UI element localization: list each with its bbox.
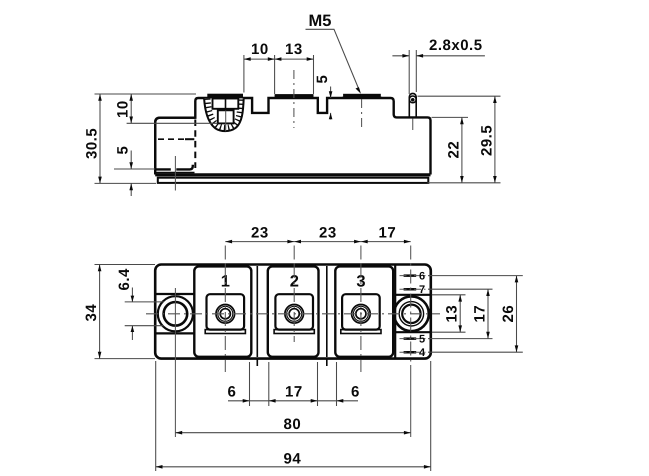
tab hidden edge (dashed)	[194, 120, 196, 169]
ext line tab bottom	[114, 168, 155, 170]
aux pin 6	[404, 274, 417, 277]
section block terminal 2	[268, 266, 319, 356]
centerline terminal 1	[224, 246, 226, 373]
dimension 26 (right)	[516, 276, 518, 353]
svg-text:13: 13	[444, 305, 461, 323]
dimension 22	[461, 117, 463, 182]
module body outline (side view)	[155, 98, 430, 175]
ext lines 94	[156, 361, 431, 471]
mounting hole centerline (left, side view)	[174, 156, 176, 191]
svg-text:10: 10	[115, 100, 132, 118]
dimension 5 (left)	[130, 151, 132, 197]
dimension 13 (right)	[459, 295, 461, 332]
svg-text:2.8x0.5: 2.8x0.5	[429, 37, 483, 54]
dimension 10 (left)	[130, 94, 132, 123]
ext line module top	[95, 93, 197, 95]
terminal 3 circles	[352, 305, 371, 324]
svg-text:4: 4	[419, 347, 426, 359]
aux pin 5	[404, 337, 417, 340]
centerline left hole	[174, 288, 176, 437]
svg-text:5: 5	[419, 333, 426, 345]
nut center line	[225, 111, 227, 132]
dimension 17 (right)	[487, 289, 489, 338]
dimension 2.8x0.5	[409, 50, 416, 94]
svg-text:17: 17	[285, 383, 303, 400]
dimension 94	[156, 466, 431, 468]
svg-text:17: 17	[379, 225, 397, 242]
svg-text:80: 80	[284, 416, 302, 433]
pad 3 centerline	[361, 99, 363, 130]
baseplate	[158, 178, 429, 183]
tab (quick-connect terminal)	[155, 118, 195, 170]
ext lines right pins	[428, 275, 523, 277]
centerline terminal 2	[293, 246, 295, 343]
terminal 2 circles	[285, 305, 304, 324]
svg-text:17: 17	[472, 305, 489, 323]
dimension 13 (top)	[275, 57, 282, 61]
terminal 1 square pad	[207, 294, 245, 329]
dimension 80	[175, 432, 410, 434]
centerline pins column / right hole	[410, 246, 412, 366]
dimension row 6/17/6	[228, 400, 358, 402]
svg-text:10: 10	[251, 41, 269, 58]
nut (white rect with split)	[213, 99, 239, 109]
horizontal centerline	[146, 313, 440, 315]
groove line t2/t3	[326, 266, 328, 366]
dimension 29.5	[494, 96, 496, 183]
aux pin 7	[404, 288, 417, 291]
clamp washer bar (dark)	[207, 94, 243, 98]
ext line pin top right	[418, 95, 501, 97]
terminal 2 square pad	[275, 294, 313, 329]
svg-text:26: 26	[500, 305, 517, 323]
ext line tab top	[127, 122, 218, 124]
left mounting hole	[158, 296, 193, 331]
screw shank (white rect)	[218, 110, 234, 123]
ext line baseplate bottom left	[95, 182, 157, 184]
terminal pad 1 (dark bar)	[275, 94, 314, 98]
pins section divider	[394, 266, 396, 358]
svg-text:M5: M5	[309, 12, 332, 30]
svg-text:23: 23	[251, 225, 269, 242]
groove line t1/t2	[256, 266, 258, 366]
svg-text:6: 6	[351, 383, 360, 400]
svg-text:29.5: 29.5	[478, 125, 495, 156]
section block terminal 1	[194, 266, 251, 356]
ext lines 34	[95, 265, 156, 359]
right hole block lines	[395, 295, 430, 332]
dimension 10 (top)	[244, 58, 314, 60]
svg-text:6.4: 6.4	[116, 268, 133, 291]
svg-text:6: 6	[228, 383, 237, 400]
cap nut dome (hatched cross-section)	[204, 98, 244, 131]
dimension 6.4	[131, 288, 133, 341]
aux pin (2.8x0.5, side view)	[409, 93, 416, 117]
right mounting hole	[394, 296, 429, 331]
module outline (top view)	[155, 265, 431, 359]
section block terminal 3	[335, 266, 393, 356]
dimension row 23/23/17	[225, 241, 410, 243]
terminal pad 3 / M5 (dark bar)	[343, 94, 381, 98]
svg-text:34: 34	[83, 304, 100, 322]
dimension 30.5	[99, 94, 101, 183]
svg-text:13: 13	[285, 41, 303, 58]
svg-text:23: 23	[319, 225, 337, 242]
centerline terminal 3	[360, 246, 362, 373]
svg-text:22: 22	[445, 141, 462, 159]
left end recess lines	[156, 294, 195, 333]
svg-text:5: 5	[115, 146, 132, 155]
pin centerline	[412, 119, 414, 131]
dimension 34	[99, 265, 101, 359]
aux pin 4	[404, 351, 417, 354]
tab inner blade line	[158, 138, 185, 140]
body bottom edge	[155, 173, 430, 176]
svg-text:7: 7	[419, 284, 426, 296]
svg-text:6: 6	[419, 270, 426, 282]
terminal 3 square pad	[342, 294, 380, 329]
dimension 5 (top, notch depth)	[330, 87, 332, 120]
ext line step top right	[432, 116, 469, 118]
svg-text:30.5: 30.5	[84, 128, 101, 159]
ext line baseplate bottom right	[428, 182, 501, 184]
ext lines 6.4	[125, 302, 164, 326]
terminal 1 circles	[216, 305, 235, 324]
flange ledge line	[156, 172, 195, 174]
svg-text:94: 94	[284, 450, 302, 467]
ext lines 6/17/6	[250, 362, 337, 406]
pad 1 centerline	[293, 70, 295, 128]
ext lines 10/13 top	[244, 55, 314, 94]
svg-text:5: 5	[314, 75, 331, 84]
